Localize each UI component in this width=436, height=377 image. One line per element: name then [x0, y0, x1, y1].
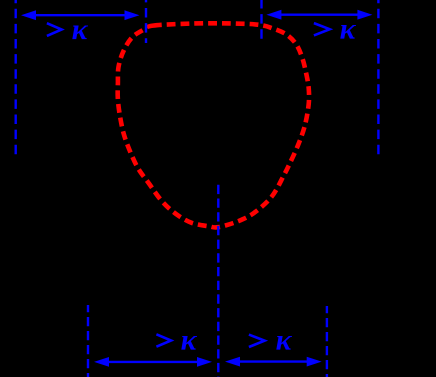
- top-right label >: [314, 23, 330, 35]
- svg-text:κ: κ: [181, 323, 198, 356]
- left inner vertical dashed line: [145, 0, 147, 43]
- red dashed closed curve (domain boundary): [118, 23, 309, 227]
- bottom left vertical dashed line: [87, 305, 89, 377]
- top-right double arrow: [266, 10, 372, 20]
- top-left label >: [47, 23, 62, 36]
- bottom center vertical dashed line: [217, 185, 219, 377]
- bottom-right label >: [249, 335, 265, 347]
- bottom-right double arrow: [225, 357, 322, 367]
- top-left double arrow: [21, 10, 140, 20]
- bottom-left label >: [156, 334, 171, 346]
- svg-text:κ: κ: [276, 323, 293, 356]
- right inner vertical dashed line: [260, 0, 262, 43]
- left outer vertical dashed line: [14, 0, 16, 160]
- bottom right vertical dashed line: [326, 306, 328, 377]
- bottom-left double arrow: [94, 357, 212, 367]
- right outer vertical dashed line: [377, 0, 379, 160]
- svg-text:κ: κ: [340, 12, 357, 45]
- svg-text:κ: κ: [72, 13, 89, 46]
